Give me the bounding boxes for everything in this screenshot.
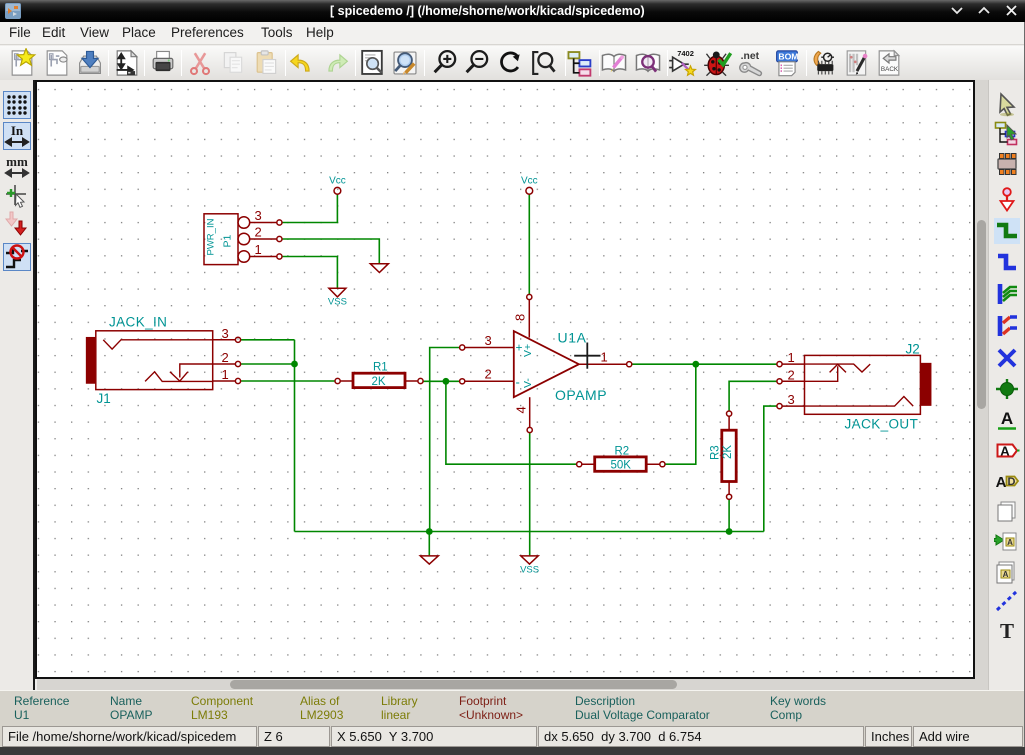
svg-text:A: A <box>1001 409 1013 428</box>
wire R2 to output <box>665 364 696 464</box>
svg-text:.net: .net <box>741 51 760 62</box>
left: mm button <box>3 154 31 182</box>
schematic canvas <box>37 82 973 677</box>
wire J2 pin2 to R3 <box>729 381 777 411</box>
left: HV wire button (selected) <box>3 243 31 271</box>
wire feedback to R2 <box>446 381 577 464</box>
svg-text:2K: 2K <box>722 445 734 459</box>
connector P1 box <box>204 214 238 265</box>
svg-text:D: D <box>1008 476 1016 488</box>
svg-text:VSS: VSS <box>328 297 347 308</box>
wire opamp plus to rail <box>430 348 460 532</box>
opamp input pins <box>465 348 514 382</box>
Vss triangle opamp <box>521 556 538 564</box>
toolbar <box>0 46 1025 80</box>
J1 pin lines <box>213 340 236 381</box>
title bar <box>0 0 1025 22</box>
svg-text:Vcc: Vcc <box>329 175 346 186</box>
J1 sleeve line with bump <box>145 372 213 382</box>
resistor R1 <box>353 373 405 387</box>
svg-text:2: 2 <box>788 367 795 382</box>
opamp pin8 <box>528 300 530 338</box>
junction output <box>692 361 699 368</box>
window buttons <box>948 5 1022 17</box>
wire R3 to rail <box>728 499 730 531</box>
svg-text:mm: mm <box>6 154 28 169</box>
wire ground rail <box>295 531 764 533</box>
svg-text:1: 1 <box>222 367 229 382</box>
Vcc symbol opamp <box>526 187 533 194</box>
canvas frame <box>35 80 975 679</box>
svg-text:In: In <box>11 123 24 138</box>
svg-text:A: A <box>1003 570 1009 579</box>
resistor R3 <box>722 430 736 481</box>
svg-text:OPAMP: OPAMP <box>555 387 607 403</box>
junction J1 node <box>291 361 298 368</box>
junction feedback <box>443 378 450 385</box>
J2 tip line with V <box>805 364 871 372</box>
P1 pin lines and end circles <box>250 223 277 257</box>
left: inches button (selected) <box>3 122 31 150</box>
crosshair cursor <box>574 343 600 369</box>
svg-text:3: 3 <box>222 326 229 341</box>
wire opamp pin4 to Vss <box>529 433 531 556</box>
Vcc symbol P1 <box>334 187 341 194</box>
svg-text:R3: R3 <box>710 445 722 460</box>
gnd triangle P1 pin2 <box>370 264 388 273</box>
svg-text:R1: R1 <box>373 361 388 373</box>
jack J1 body <box>96 331 213 390</box>
left toolbar <box>0 80 35 690</box>
junction rail R3 <box>726 528 733 535</box>
wire node down left <box>294 340 296 532</box>
gnd triangle rail <box>420 556 438 564</box>
horizontal scrollbar <box>37 679 975 690</box>
svg-text:-: - <box>516 375 520 390</box>
pin numbers dark red <box>222 208 795 414</box>
opamp U1A triangle <box>514 331 579 397</box>
teal labels <box>97 175 920 575</box>
wire P1 pin3 to Vcc <box>282 194 337 222</box>
svg-text:P1: P1 <box>222 234 234 247</box>
jack J2 body <box>805 355 921 414</box>
wire J1 pin2 <box>241 363 295 365</box>
svg-text:3: 3 <box>255 208 262 223</box>
svg-text:BACK: BACK <box>881 66 899 73</box>
wire R1 to opamp inverting <box>423 380 460 382</box>
opamp pin marks <box>516 341 535 390</box>
J1 tip contact line with V <box>103 340 213 349</box>
resistor R2 <box>595 457 647 471</box>
svg-text:1: 1 <box>601 350 608 365</box>
svg-text:2: 2 <box>255 225 262 240</box>
left: cursor shape <box>3 182 31 210</box>
opamp output pin <box>579 363 627 365</box>
svg-text:A: A <box>1000 444 1010 459</box>
svg-text:2: 2 <box>222 350 229 365</box>
wire Vcc to opamp pin8 <box>528 194 530 294</box>
svg-text:JACK_OUT: JACK_OUT <box>845 417 919 432</box>
junction dots <box>291 361 732 535</box>
svg-text:2: 2 <box>485 367 492 382</box>
Vss triangle P1 pin1 <box>329 288 346 297</box>
left: hidden pins <box>3 209 31 237</box>
svg-text:VSS: VSS <box>520 565 539 576</box>
wire J1 pin1 to R1 <box>241 380 335 382</box>
status bar <box>2 726 257 747</box>
window icon <box>5 3 21 19</box>
svg-text:V+: V+ <box>522 344 534 357</box>
svg-text:U1A: U1A <box>558 330 587 346</box>
svg-text:JACK_IN: JACK_IN <box>109 315 167 330</box>
wire opamp output to J2 pin1 <box>632 363 777 365</box>
svg-text:A: A <box>996 474 1007 491</box>
svg-text:T: T <box>1000 619 1014 643</box>
wire rail to gnd symbol <box>428 532 430 556</box>
svg-text:A: A <box>1007 538 1013 547</box>
opamp pin4 <box>529 397 531 427</box>
wire P1 pin1 to Vss <box>282 257 337 288</box>
svg-text:1: 1 <box>255 242 262 257</box>
svg-text:J1: J1 <box>97 391 111 406</box>
junction rail gnd <box>426 528 433 535</box>
wire P1 pin2 to gnd <box>282 239 379 263</box>
svg-text:7402: 7402 <box>677 49 694 58</box>
J2 sleeve line with bump <box>805 397 914 407</box>
svg-text:4: 4 <box>514 406 529 413</box>
svg-text:3: 3 <box>485 333 492 348</box>
J2 pin lines <box>782 364 804 406</box>
P1 pin bumps <box>238 217 250 229</box>
vertical scrollbar <box>975 80 988 690</box>
svg-text:PWR_IN: PWR_IN <box>206 218 217 255</box>
svg-text:BOM: BOM <box>778 52 798 62</box>
left: grid button (selected) <box>3 91 31 119</box>
menu bar <box>0 22 1025 45</box>
wire J1 pin3 <box>241 339 295 341</box>
svg-text:V-: V- <box>522 378 534 388</box>
svg-text:8: 8 <box>513 314 528 321</box>
svg-text:J2: J2 <box>906 342 920 357</box>
J2 switch arrow <box>805 364 846 381</box>
wire J2 pin3 down <box>764 406 777 531</box>
bottom info panel <box>0 690 1025 747</box>
svg-text:R2: R2 <box>615 445 630 457</box>
svg-text:2K: 2K <box>372 376 386 388</box>
svg-text:3: 3 <box>788 392 795 407</box>
svg-text:50K: 50K <box>611 459 632 471</box>
right toolbar <box>988 80 1025 690</box>
svg-text:1: 1 <box>788 350 795 365</box>
svg-text:Vcc: Vcc <box>521 175 538 186</box>
J1 switch contact <box>170 364 213 381</box>
